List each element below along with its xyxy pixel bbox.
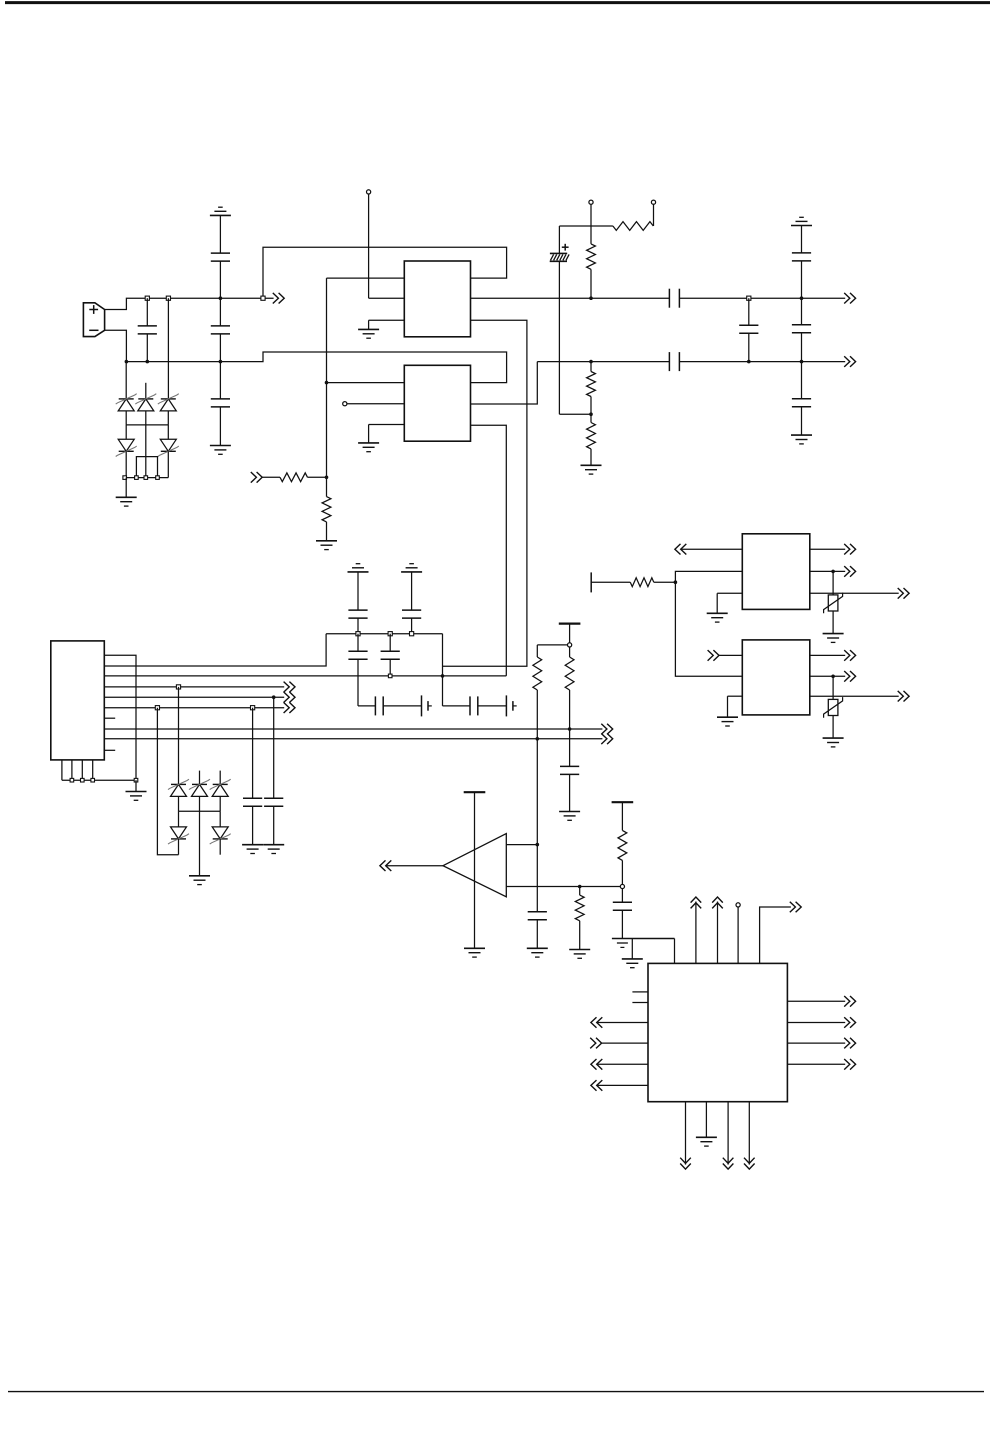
wire	[810, 570, 845, 572]
capacitor C18	[528, 845, 547, 949]
junction	[219, 360, 223, 364]
resistor R5	[533, 645, 542, 739]
junction	[536, 843, 540, 847]
varistor RV1	[824, 571, 843, 633]
node arrow	[844, 1017, 850, 1028]
IC U3	[742, 534, 810, 610]
op-amp U5	[443, 834, 506, 897]
node arrow	[844, 1038, 850, 1049]
capacitor C1	[138, 298, 157, 361]
ground	[263, 845, 284, 854]
TVS diode D10	[210, 811, 231, 855]
terminal TP1	[367, 190, 371, 194]
wire	[810, 548, 845, 550]
wire	[681, 548, 743, 550]
stub pin7	[104, 717, 115, 719]
junction	[146, 360, 150, 364]
wire	[471, 297, 846, 299]
junction	[578, 885, 582, 889]
junction	[156, 476, 160, 480]
wire	[787, 1063, 845, 1065]
wire	[559, 225, 613, 227]
junction	[747, 360, 751, 364]
capacitor C8	[792, 226, 811, 299]
wire	[327, 277, 405, 279]
TVS diode D1	[116, 394, 137, 425]
junction	[410, 632, 414, 636]
junction	[800, 360, 804, 364]
wire	[597, 1084, 648, 1086]
capacitor C17	[560, 729, 579, 812]
junction	[176, 685, 180, 689]
node arrow	[675, 544, 681, 555]
junction	[135, 476, 139, 480]
node arrow	[898, 588, 904, 599]
page bottom rule	[8, 1391, 984, 1393]
wire	[179, 810, 221, 812]
wire	[537, 361, 845, 363]
capacitor C7	[739, 298, 758, 361]
wire	[810, 654, 845, 656]
wire	[386, 865, 443, 867]
terminal TP3	[589, 200, 593, 204]
resistor R3	[587, 414, 596, 465]
wire	[442, 634, 444, 706]
TVS diode D8	[210, 771, 231, 812]
wire	[537, 644, 567, 646]
resistor R7	[591, 572, 675, 592]
node arrow	[844, 671, 850, 682]
wire pin5	[104, 696, 284, 698]
junction	[356, 632, 360, 636]
junction	[441, 674, 445, 678]
connector J2	[51, 641, 105, 760]
wire pin6	[104, 707, 284, 709]
IC U1	[404, 261, 470, 337]
junction	[831, 570, 835, 574]
wire	[167, 298, 169, 399]
terminal TP5	[568, 643, 572, 647]
wire	[506, 886, 620, 888]
wire	[105, 330, 507, 382]
node arrow	[844, 650, 850, 661]
wire	[810, 675, 845, 677]
wire	[719, 654, 742, 656]
TVS diode D6	[168, 779, 189, 811]
capacitor pair CP3	[443, 695, 517, 716]
capacitor C13	[348, 572, 367, 634]
wire bus2	[104, 738, 602, 740]
node arrow	[601, 724, 607, 735]
capacitor pair CP2	[358, 695, 432, 716]
resistor R9	[618, 830, 627, 884]
ground	[569, 950, 590, 959]
junction	[166, 296, 170, 300]
ground	[622, 939, 643, 968]
node arrow	[708, 650, 714, 661]
junction	[70, 778, 74, 782]
capacitor C6	[669, 352, 679, 371]
capacitor CP1 (polarized)	[550, 226, 569, 414]
junction	[325, 476, 329, 480]
wire pin2	[104, 634, 326, 666]
resistor R1	[587, 226, 596, 298]
wire platform	[326, 633, 442, 635]
wire	[760, 907, 791, 963]
capacitor C5	[669, 289, 679, 308]
capacitor C15	[348, 634, 367, 706]
node IN arrow	[251, 472, 262, 483]
IC U6	[648, 963, 787, 1101]
node arrow	[844, 566, 850, 577]
terminal TP7	[736, 903, 740, 964]
ground (inverted)	[401, 564, 422, 572]
junction	[388, 674, 392, 678]
capacitor C16	[381, 634, 400, 676]
wire	[105, 298, 274, 309]
IC U4	[742, 640, 810, 715]
junction	[261, 296, 265, 300]
wire pin3	[104, 675, 506, 677]
wire	[178, 687, 180, 785]
supply arrow	[744, 1102, 755, 1169]
junction	[81, 778, 85, 782]
junction	[134, 778, 138, 782]
node arrow	[591, 1080, 597, 1091]
ground U1	[358, 320, 404, 338]
TVS diode D4	[116, 425, 137, 478]
resistor R2	[587, 362, 596, 415]
resistor R8	[575, 887, 584, 950]
capacitor C14	[402, 572, 421, 634]
node arrow	[284, 692, 290, 703]
supply arrow	[691, 897, 702, 963]
ground	[823, 634, 844, 643]
wire	[326, 278, 328, 477]
stub	[632, 991, 648, 993]
capacitor C10	[792, 362, 811, 436]
wire	[787, 1042, 845, 1044]
wire	[126, 424, 168, 426]
supply arrow	[680, 1102, 691, 1169]
wire	[471, 425, 507, 676]
wire	[590, 204, 592, 226]
junction	[251, 706, 255, 710]
power tap PWR1	[559, 624, 581, 643]
ground	[189, 811, 210, 884]
node arrow	[591, 1017, 597, 1028]
ground	[210, 446, 231, 455]
wire	[602, 1042, 648, 1044]
TVS diode D9	[168, 811, 189, 855]
wire	[536, 739, 538, 845]
ground U2	[358, 425, 404, 452]
wire	[157, 708, 178, 855]
capacitor C2	[211, 215, 230, 298]
ground U4	[717, 696, 742, 726]
junction	[155, 706, 159, 710]
wire	[263, 247, 507, 298]
wire	[559, 413, 591, 415]
ground	[559, 812, 580, 821]
node arrow	[844, 544, 850, 555]
capacitor C19	[613, 889, 632, 939]
resistor R10	[262, 473, 326, 482]
ground (inverted)	[348, 564, 369, 572]
terminal TP2	[343, 402, 347, 406]
resistor R11	[322, 477, 331, 532]
junction	[125, 360, 129, 364]
junction	[388, 632, 392, 636]
junction	[568, 727, 572, 731]
junction	[589, 412, 593, 416]
junction	[831, 675, 835, 679]
node MIC+ arrow	[273, 293, 284, 304]
page top rule	[5, 1, 990, 4]
wire	[125, 362, 127, 399]
power tap PWR2	[464, 792, 486, 948]
node OUT2 arrow	[844, 356, 855, 367]
node arrow	[380, 860, 386, 871]
ground	[464, 948, 485, 957]
wire	[327, 382, 405, 384]
junction	[536, 737, 540, 741]
ground U6	[696, 1102, 717, 1146]
junction	[747, 296, 751, 300]
TVS diode D7	[189, 771, 210, 812]
capacitor C9	[792, 298, 811, 361]
fuse box F1	[136, 425, 157, 478]
wire pin4	[104, 686, 284, 688]
capacitor C12	[264, 697, 283, 845]
junction	[219, 296, 223, 300]
node arrow	[601, 734, 607, 745]
TVS diode D2	[135, 383, 156, 425]
junction	[91, 778, 95, 782]
node arrow	[284, 702, 290, 713]
junction	[800, 296, 804, 300]
node arrow	[790, 902, 796, 913]
capacitor C11	[243, 708, 262, 845]
wire pin1	[104, 655, 136, 780]
ground	[612, 939, 675, 948]
node arrow	[898, 691, 904, 702]
junction	[589, 360, 593, 364]
wire	[810, 695, 899, 697]
ground	[527, 948, 548, 957]
electret microphone MK1	[83, 303, 104, 337]
power tap PWR3	[612, 802, 634, 830]
ground	[126, 780, 147, 800]
TVS diode D3	[158, 394, 179, 425]
resistor R6	[565, 647, 574, 729]
wire	[443, 320, 527, 666]
junction	[325, 381, 329, 385]
wire	[675, 571, 742, 676]
stub pin10	[104, 749, 115, 751]
node arrow	[844, 996, 850, 1007]
resistor R12	[613, 222, 653, 231]
junction	[589, 296, 593, 300]
wire	[597, 1022, 648, 1024]
junction	[144, 476, 148, 480]
supply arrow	[712, 897, 723, 963]
wire	[787, 1022, 845, 1024]
wire	[506, 844, 537, 846]
ground	[116, 478, 137, 507]
node OUT1 arrow	[844, 293, 855, 304]
stub	[632, 1002, 648, 1004]
terminal TP6	[620, 884, 624, 888]
node arrow	[591, 1059, 597, 1070]
varistor RV2	[824, 676, 843, 738]
wire	[787, 1000, 845, 1002]
wire	[597, 1063, 648, 1065]
TVS diode D5	[158, 425, 179, 478]
wire	[347, 403, 404, 405]
wire	[471, 362, 538, 404]
wire	[674, 939, 676, 964]
ground	[823, 738, 844, 747]
capacitor C3	[211, 298, 230, 361]
wire bus1	[104, 728, 602, 730]
junction	[123, 476, 127, 480]
ground (inverted)	[791, 217, 812, 225]
ground (inverted)	[210, 207, 231, 215]
node arrow	[844, 1059, 850, 1070]
node arrow	[284, 682, 290, 693]
ground	[242, 845, 263, 854]
supply arrow	[723, 1102, 734, 1169]
wire	[810, 592, 899, 594]
junction	[145, 296, 149, 300]
junction	[272, 695, 276, 699]
ground	[581, 465, 602, 474]
ground U3	[707, 593, 743, 622]
capacitor C4	[211, 362, 230, 446]
wire	[369, 194, 405, 298]
terminal TP4	[651, 200, 655, 204]
junction	[674, 580, 678, 584]
wire	[653, 204, 655, 226]
node arrow	[590, 1038, 596, 1049]
ground	[316, 532, 337, 550]
wire	[125, 477, 169, 479]
wire	[62, 760, 136, 780]
ground	[791, 435, 812, 444]
IC U2	[404, 365, 470, 441]
